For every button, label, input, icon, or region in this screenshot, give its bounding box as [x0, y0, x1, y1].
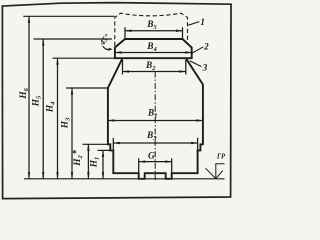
extension line H5 level: [34, 38, 113, 40]
body walls and lower outline: [108, 58, 203, 179]
dimension G: [139, 158, 172, 173]
dimension B5: [125, 27, 183, 39]
dimension B1: [108, 119, 203, 122]
dimension B2: [123, 60, 186, 75]
paper background: [0, 0, 234, 204]
centerline: [154, 72, 156, 183]
rail level baseline: [24, 178, 225, 180]
svg-text:2: 2: [203, 42, 209, 52]
rail level mark GR: [206, 164, 225, 179]
extension line H6 level: [23, 15, 115, 17]
extension line H3 level: [66, 87, 108, 89]
border frame: [2, 3, 231, 199]
leader 2: [192, 47, 203, 53]
leader 3: [190, 61, 202, 67]
45 degree leader arrow: [103, 46, 113, 51]
extension line H4 level: [53, 57, 115, 59]
dimension H5: [42, 39, 45, 179]
dimension H3: [71, 88, 74, 179]
leader 1: [188, 22, 199, 26]
extension line H1 level: [98, 149, 112, 151]
dashed pantograph outline top: [115, 13, 188, 46]
svg-text:*: *: [72, 149, 77, 159]
svg-text:3: 3: [202, 62, 208, 72]
svg-text:1: 1: [200, 17, 205, 27]
dimension H4: [56, 58, 59, 179]
svg-text:G: G: [148, 152, 155, 162]
dimension B3: [113, 138, 197, 151]
body outline: [115, 39, 192, 58]
extension line H2 level: [83, 143, 109, 145]
dimension B4: [115, 51, 192, 54]
dimension H2*: [87, 144, 90, 179]
dimension H6: [28, 16, 31, 179]
svg-text:ГР: ГР: [216, 154, 226, 161]
dimension H1: [102, 150, 105, 178]
